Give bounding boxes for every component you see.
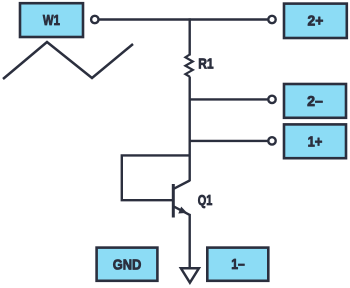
svg-text:GND: GND xyxy=(113,257,142,274)
wire: main vertical from top wire to R1 xyxy=(188,18,190,55)
terminal circle at 1+ xyxy=(268,137,275,144)
svg-text:Q1: Q1 xyxy=(198,192,213,209)
transistor Q1 xyxy=(173,181,189,218)
node 1- (scope channel 1 negative box) xyxy=(207,248,268,281)
wire: collector-to-base feedback loop xyxy=(122,155,190,200)
terminal circle at 2+ xyxy=(268,16,275,23)
wire: horizontal to 2- terminal xyxy=(190,98,269,100)
ground symbol xyxy=(181,268,199,282)
wire: emitter to ground xyxy=(188,214,190,269)
svg-text:1+: 1+ xyxy=(308,133,323,150)
svg-text:1–: 1– xyxy=(231,256,245,273)
label R1 xyxy=(198,56,213,73)
triangle-wave symbol for W1 xyxy=(3,42,133,79)
wire: W1 terminal to 2+ terminal (top horizontal) xyxy=(99,18,268,20)
wire: main vertical from R1 to transistor collector xyxy=(188,77,190,182)
resistor R1 xyxy=(185,55,192,77)
node 1+ (scope channel 1 positive box) xyxy=(284,124,346,158)
terminal circle at 2- xyxy=(268,96,275,103)
node 2+ (scope channel 2 positive box) xyxy=(284,4,347,38)
node W1 (signal generator box) xyxy=(20,3,83,37)
terminal circle at W1 output xyxy=(91,16,98,23)
label Q1 xyxy=(198,192,213,209)
node 2- (scope channel 2 negative box) xyxy=(284,84,346,118)
wire: horizontal to 1+ terminal xyxy=(190,140,269,142)
svg-text:2–: 2– xyxy=(307,93,323,110)
node GND (ground box) xyxy=(97,248,158,281)
svg-text:R1: R1 xyxy=(198,56,213,73)
svg-text:2+: 2+ xyxy=(308,12,324,29)
svg-text:W1: W1 xyxy=(43,12,60,29)
